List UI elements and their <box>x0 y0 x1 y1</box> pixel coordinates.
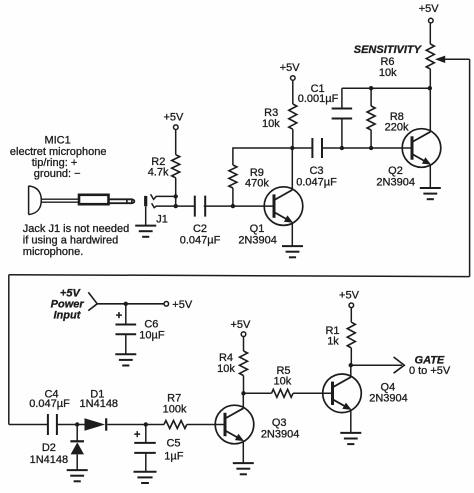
terminal +5V R1 <box>349 303 354 308</box>
svg-text:0.047µF: 0.047µF <box>29 398 70 410</box>
wire C3 to C1 node <box>322 147 342 149</box>
label R5 10k <box>274 375 292 387</box>
label +5V R1 <box>339 289 360 301</box>
plug body <box>79 195 109 204</box>
wire R1 bottom <box>350 348 352 365</box>
note line1 <box>23 223 129 235</box>
label R6 <box>380 56 394 68</box>
node signal <box>174 204 178 208</box>
wire node to R5 <box>244 392 272 394</box>
capacitor C3 <box>312 138 322 158</box>
svg-text:2N3904: 2N3904 <box>238 235 277 247</box>
label C1 <box>311 83 325 95</box>
capacitor C6 <box>115 325 136 335</box>
label +5V R6 <box>419 3 440 15</box>
label R4 10k <box>217 363 235 375</box>
label Q2 <box>388 165 403 177</box>
svg-text:+5V: +5V <box>163 111 184 123</box>
label C5 plus <box>134 429 140 441</box>
svg-text:SENSITIVITY: SENSITIVITY <box>354 44 423 56</box>
wire C6 top lead <box>125 304 127 325</box>
label +5V bold <box>60 287 82 299</box>
capacitor C2 <box>195 196 205 217</box>
label D2 1N4148 <box>30 454 69 466</box>
diode D2 <box>70 441 84 454</box>
wire Q1 emitter <box>291 223 293 247</box>
mic cable <box>41 199 79 202</box>
terminal +5V R3 <box>291 76 296 81</box>
label R3 10k <box>262 118 280 130</box>
terminal +5V R6 <box>429 18 434 23</box>
svg-text:Q3: Q3 <box>272 417 287 429</box>
label Q4 <box>381 382 396 394</box>
label Input <box>54 310 82 322</box>
resistor R1 <box>347 322 355 348</box>
label Power <box>51 299 85 311</box>
wire GATE <box>351 364 402 366</box>
svg-text:220k: 220k <box>385 121 409 133</box>
svg-text:R7: R7 <box>167 392 181 404</box>
wire left edge <box>8 275 10 425</box>
ground Q3 <box>233 463 254 474</box>
label 470k <box>245 178 269 190</box>
label C5 value <box>164 451 183 463</box>
wire right edge <box>469 59 471 276</box>
node C6 top <box>124 302 128 306</box>
label C3 <box>309 165 323 177</box>
wire R8 bottom lead <box>370 130 372 148</box>
svg-text:C3: C3 <box>309 165 323 177</box>
wire node to Q1 base <box>233 205 274 207</box>
node Q1 collector <box>290 146 294 150</box>
svg-text:4.7k: 4.7k <box>148 167 169 179</box>
ground Q4 <box>340 433 361 444</box>
label R9 <box>250 167 264 179</box>
label R5 <box>276 365 290 377</box>
wire Q3 collector <box>242 393 244 408</box>
svg-text:MIC1: MIC1 <box>44 135 70 147</box>
label R7 100k <box>163 404 187 416</box>
svg-text:+5V: +5V <box>172 299 193 311</box>
wire jack ground lead <box>145 206 147 225</box>
svg-text:Q1: Q1 <box>250 223 265 235</box>
wire C2 to node <box>204 205 233 207</box>
svg-text:2N3904: 2N3904 <box>261 428 300 440</box>
resistor R2 <box>172 155 180 178</box>
resistor R7 <box>164 421 187 429</box>
label Q4 2N3904 <box>369 393 408 405</box>
terminal +5V R2 <box>174 125 179 130</box>
svg-text:+5V: +5V <box>419 3 440 15</box>
svg-text:+: + <box>116 310 122 322</box>
wire D1 to node <box>107 424 146 426</box>
transistor Q4 <box>323 374 362 413</box>
wire C5 bottom lead <box>145 453 147 472</box>
terminal +5V power <box>164 302 169 307</box>
wire C1 top lead <box>341 88 343 108</box>
svg-text:0 to +5V: 0 to +5V <box>409 365 451 377</box>
svg-text:C6: C6 <box>144 318 158 330</box>
wire Q2 collector <box>429 88 431 132</box>
wire R8 top lead <box>370 88 372 106</box>
diode D1 <box>85 418 107 430</box>
svg-text:if using a hardwired: if using a hardwired <box>23 235 118 247</box>
svg-text:D2: D2 <box>42 442 56 454</box>
svg-text:100k: 100k <box>163 404 187 416</box>
transistor Q1 <box>264 187 303 226</box>
wire to R8 node <box>342 147 371 149</box>
node tip bias <box>174 194 178 198</box>
svg-text:Jack J1 is not needed: Jack J1 is not needed <box>23 223 129 235</box>
jack J1 ring contact <box>152 203 176 207</box>
label GATE <box>415 354 445 366</box>
power input chevron <box>88 292 97 310</box>
wire Q4 collector <box>350 365 352 377</box>
wire R2 bottom <box>175 178 177 197</box>
svg-text:microphone.: microphone. <box>23 246 84 258</box>
node GATE <box>349 363 353 367</box>
label Q3 <box>272 417 287 429</box>
resistor R9 <box>229 165 237 188</box>
wire C5 top lead <box>145 425 147 443</box>
svg-text:+5V: +5V <box>230 319 251 331</box>
node R8 bottom <box>369 146 373 150</box>
svg-text:0.047µF: 0.047µF <box>296 176 337 188</box>
svg-text:10k: 10k <box>274 375 292 387</box>
svg-text:1k: 1k <box>327 335 339 347</box>
label C2 value <box>180 235 221 247</box>
wire power input <box>97 303 164 305</box>
svg-text:2N3904: 2N3904 <box>369 393 408 405</box>
svg-text:C2: C2 <box>193 223 207 235</box>
wire R1 top <box>350 308 352 322</box>
label SENSITIVITY <box>354 44 423 56</box>
wire R4 bottom <box>243 376 245 394</box>
label C3 value <box>296 176 337 188</box>
svg-text:10µF: 10µF <box>139 330 165 342</box>
ground C5 <box>134 472 157 483</box>
label tip/ring: + <box>32 157 78 169</box>
wire R3 top <box>292 81 294 104</box>
label electret microphone <box>10 146 107 158</box>
label C6 <box>144 318 158 330</box>
note line3 <box>23 246 84 258</box>
node Q3 collector <box>241 391 245 395</box>
wire R9 bottom <box>232 188 234 206</box>
label C2 <box>193 223 207 235</box>
label +5V R3 <box>280 62 301 74</box>
GATE arrowhead <box>394 357 405 373</box>
wire Q4 emitter <box>350 410 352 433</box>
label +5V R2 <box>163 111 184 123</box>
ground Q1 <box>282 246 303 257</box>
wire C4 to node <box>57 424 77 426</box>
svg-text:+5V: +5V <box>339 289 360 301</box>
label R3 <box>264 107 278 119</box>
node C1 bottom <box>340 146 344 150</box>
wire top C1-R8-pot <box>342 87 430 89</box>
label ground: − <box>34 168 81 180</box>
wire R5 to Q4 <box>293 392 333 394</box>
label MIC1 <box>44 135 70 147</box>
svg-text:Q2: Q2 <box>388 165 403 177</box>
svg-text:0.047µF: 0.047µF <box>180 235 221 247</box>
svg-text:J1: J1 <box>156 213 168 225</box>
svg-text:Input: Input <box>54 310 82 322</box>
label D1 <box>90 388 104 400</box>
wire R6 top <box>429 23 431 44</box>
wire Q2 emitter <box>429 165 431 189</box>
jack J1 sleeve bar <box>144 196 147 206</box>
svg-text:+: + <box>134 429 140 441</box>
capacitor C4 <box>48 414 57 435</box>
ground J1 <box>135 226 156 237</box>
wire jack to C2 <box>176 205 195 207</box>
wire R4 top <box>243 337 245 351</box>
label C5 <box>166 438 180 450</box>
node top R8 <box>369 86 373 90</box>
label D1 1N4148 <box>80 398 119 410</box>
label C4 <box>44 388 58 400</box>
svg-text:1µF: 1µF <box>164 451 183 463</box>
resistor R8 <box>367 106 375 130</box>
label R1 1k <box>327 335 339 347</box>
wire Q3 emitter <box>242 441 244 463</box>
wire C6 bottom lead <box>125 334 127 354</box>
label R1 <box>325 325 339 337</box>
label Q1 <box>250 223 265 235</box>
svg-text:0.001µF: 0.001µF <box>298 93 339 105</box>
label Q3 2N3904 <box>261 428 300 440</box>
label D2 <box>42 442 56 454</box>
wire C1 bottom lead <box>341 119 343 149</box>
label R7 <box>167 392 181 404</box>
label +5V power terminal <box>172 299 193 311</box>
wire R3 bottom <box>292 129 294 148</box>
capacitor C1 <box>332 109 353 119</box>
svg-text:2N3904: 2N3904 <box>376 176 415 188</box>
node Q1 base <box>231 204 235 208</box>
wire R9 top <box>233 148 292 165</box>
wire to C4 <box>9 424 48 426</box>
resistor R4 <box>240 351 248 375</box>
capacitor C5 <box>134 443 156 453</box>
wire D1 lead <box>77 424 84 426</box>
label GATE range <box>409 365 451 377</box>
transistor Q2 <box>402 129 441 168</box>
svg-text:Power: Power <box>51 299 85 311</box>
label +5V R4 <box>230 319 251 331</box>
svg-text:10k: 10k <box>262 118 280 130</box>
wire R2 top <box>175 130 177 155</box>
jack J1 tip contact <box>151 194 176 199</box>
svg-text:+5V: +5V <box>60 287 82 299</box>
label R8 <box>390 111 404 123</box>
transistor Q3 <box>215 405 254 444</box>
svg-text:C5: C5 <box>166 438 180 450</box>
svg-text:1N4148: 1N4148 <box>30 454 69 466</box>
pot wiper arrow <box>435 56 470 63</box>
wire D2 top lead <box>76 425 78 442</box>
label Q2 2N3904 <box>376 176 415 188</box>
ground Q2 <box>420 188 441 199</box>
svg-text:10k: 10k <box>217 363 235 375</box>
ground D2 <box>67 470 88 481</box>
svg-text:470k: 470k <box>245 178 269 190</box>
wire Q1 collector <box>291 148 293 190</box>
label Q1 2N3904 <box>238 235 277 247</box>
svg-text:ground: −: ground: − <box>34 168 81 180</box>
wire jack tie <box>175 196 177 206</box>
wire R7 to Q3 <box>187 424 225 426</box>
label R4 <box>219 352 233 364</box>
label C4 value <box>29 398 70 410</box>
wire D2 bottom lead <box>76 454 78 470</box>
wire long horizontal <box>9 275 470 277</box>
potentiometer R6 <box>426 44 434 69</box>
microphone MIC1 capsule <box>29 186 42 215</box>
label C6 value <box>139 330 165 342</box>
label R6 10k <box>379 67 397 79</box>
plug shaft <box>109 199 135 204</box>
svg-text:10k: 10k <box>379 67 397 79</box>
ground C6 <box>115 354 136 365</box>
label C6 plus <box>116 310 122 322</box>
wire to Q2 base <box>371 147 412 149</box>
wire to C3 <box>292 147 312 149</box>
node D1 anode <box>75 422 79 426</box>
wire R6 bottom <box>429 69 431 88</box>
wire to R7 <box>146 424 164 426</box>
label J1 <box>156 213 168 225</box>
label R2 <box>151 156 165 168</box>
label C1 value <box>298 93 339 105</box>
label 220k <box>385 121 409 133</box>
svg-text:+5V: +5V <box>280 62 301 74</box>
resistor R5 <box>272 389 293 397</box>
terminal +5V R4 <box>241 332 246 337</box>
resistor R3 <box>289 104 297 129</box>
svg-text:1N4148: 1N4148 <box>80 398 119 410</box>
label 4.7k <box>148 167 169 179</box>
node pot bottom <box>428 86 432 90</box>
node C5 top <box>144 422 148 426</box>
note line2 <box>23 235 118 247</box>
